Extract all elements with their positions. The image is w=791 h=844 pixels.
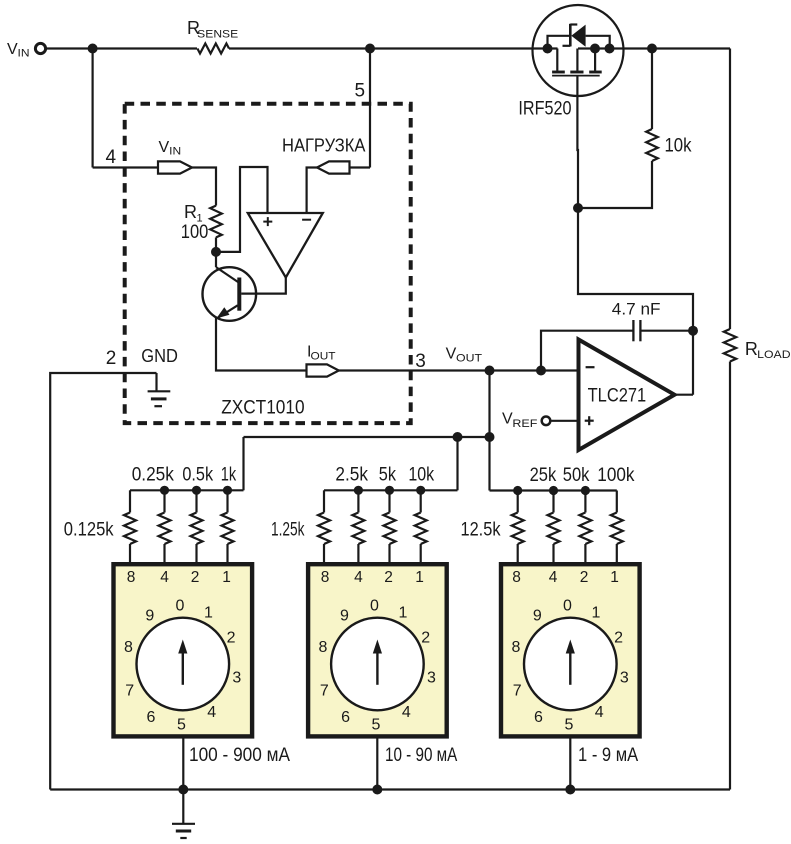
junction VOUT node [485, 366, 495, 376]
wire minus node to C1 [541, 331, 633, 371]
ground main symbol [172, 790, 195, 839]
Q2 body diode zener bar [563, 24, 578, 47]
wire 10k top [651, 49, 653, 130]
junction bus node x585.4 [581, 486, 590, 495]
label VIN flag [159, 139, 182, 158]
svg-text:1: 1 [610, 569, 619, 586]
S1 pin labels 8 4 2 1 [127, 569, 231, 586]
svg-text:9: 9 [340, 607, 349, 624]
resistor R1 value 100 [181, 222, 209, 243]
terminal VREF [542, 417, 551, 426]
wire VREF to plus input [552, 420, 579, 422]
svg-text:7: 7 [513, 682, 522, 699]
svg-text:4: 4 [354, 569, 363, 586]
junction Q2 drain [543, 44, 553, 54]
junction VIN node [88, 44, 98, 54]
ground pin2 symbol [148, 373, 171, 406]
wire right edge bottom [729, 362, 731, 790]
connector flag NAGRUZKA [317, 161, 350, 173]
connector flag IOUT [307, 364, 339, 376]
resistor R1c 0.5k [191, 490, 203, 562]
wire RSENSE to Q1 [229, 47, 533, 49]
svg-text:0.25k: 0.25k [132, 464, 175, 485]
wire C1 to output node [640, 330, 693, 332]
wire pin5 down [369, 49, 371, 168]
junction sw3 out [565, 785, 575, 795]
Q2 body diode triangle [571, 25, 585, 47]
svg-text:4: 4 [207, 704, 216, 721]
wire IOUT to VOUT [339, 369, 579, 371]
svg-text:5k: 5k [379, 464, 397, 485]
svg-text:1: 1 [415, 569, 424, 586]
svg-text:50k: 50k [563, 465, 590, 486]
terminal VIN [35, 43, 45, 53]
label R1 [184, 202, 203, 224]
svg-text:1k: 1k [221, 464, 237, 485]
capacitor C1 [633, 320, 640, 341]
svg-text:6: 6 [341, 709, 350, 726]
S2 dial arrow [373, 640, 382, 685]
svg-text:2: 2 [106, 348, 117, 369]
svg-text:1.25k: 1.25k [271, 520, 305, 541]
op-amp U1 minus sign [302, 219, 311, 221]
svg-text:V: V [159, 139, 170, 156]
junction cap output node [688, 326, 698, 336]
wire bottom rail [50, 788, 730, 790]
svg-text:9: 9 [533, 607, 542, 624]
wire pin5 to load flag [350, 166, 371, 168]
svg-text:10 - 90 мА: 10 - 90 мА [385, 745, 458, 766]
junction bus node x358.4 [354, 486, 363, 495]
wire op-amp minus input [307, 168, 317, 214]
wire Q2 gate down [576, 76, 579, 208]
svg-text:1: 1 [399, 605, 408, 622]
svg-text:V: V [7, 41, 18, 58]
svg-text:1: 1 [591, 605, 600, 622]
resistor R3c 100k [579, 491, 591, 563]
IC box ZXCT1010 dashed outline [125, 104, 411, 423]
junction sw2 out [372, 785, 382, 795]
svg-text:GND: GND [141, 346, 178, 366]
S3 dial arrow [566, 640, 575, 685]
svg-text:8: 8 [127, 569, 136, 586]
junction bus node x196.5 [192, 486, 201, 495]
Q2 channel bar 1 [552, 71, 565, 74]
label VIN input [7, 41, 30, 60]
svg-text:8: 8 [511, 639, 520, 656]
transistor Q2 IRF520 body [533, 5, 624, 96]
svg-text:1: 1 [222, 569, 231, 586]
svg-text:1: 1 [204, 605, 213, 622]
svg-text:IRF520: IRF520 [518, 99, 571, 120]
S3 dial [524, 618, 617, 711]
junction bus node x553.5 [549, 486, 558, 495]
junction 10k top [647, 44, 657, 54]
svg-text:V: V [446, 345, 457, 362]
rotary switch S2 body [308, 564, 447, 736]
svg-text:3: 3 [427, 670, 436, 687]
svg-text:25k: 25k [530, 465, 557, 486]
svg-text:7: 7 [320, 682, 329, 699]
svg-text:100: 100 [181, 222, 209, 243]
junction ladder node [485, 432, 495, 442]
svg-text:10k: 10k [408, 464, 434, 485]
Q2 source stub [576, 49, 578, 71]
junction ladder mid [453, 432, 463, 442]
junction bus node x517.7 [513, 486, 522, 495]
svg-text:4: 4 [549, 569, 558, 586]
label VOUT [446, 345, 483, 364]
S1 dial arrow [178, 640, 187, 685]
wire node to Q1 collector [215, 252, 217, 267]
junction gnd main [178, 785, 188, 795]
junction bus node x227.5 [223, 486, 232, 495]
svg-text:8: 8 [512, 569, 521, 586]
svg-text:8: 8 [321, 569, 330, 586]
resistor RSENSE [197, 44, 229, 54]
S1 dial digits 0-9 [124, 597, 241, 733]
svg-text:IN: IN [169, 146, 181, 158]
svg-text:4: 4 [160, 569, 169, 586]
wire S3 output [569, 739, 571, 790]
wire ladder horizontal [244, 436, 490, 438]
S3 dial digits 0-9 [511, 597, 628, 733]
svg-text:OUT: OUT [311, 351, 336, 363]
svg-text:0: 0 [370, 597, 379, 614]
svg-text:R: R [184, 202, 197, 222]
svg-text:8: 8 [124, 639, 133, 656]
svg-text:5: 5 [355, 81, 366, 102]
op-amp U2 TLC271 [579, 340, 675, 451]
wire pin2 gnd [50, 373, 156, 790]
svg-text:7: 7 [125, 682, 134, 699]
svg-text:2: 2 [191, 569, 200, 586]
junction pin5 node [365, 44, 375, 54]
svg-text:6: 6 [147, 709, 156, 726]
svg-text:2: 2 [580, 569, 589, 586]
svg-text:100 - 900 мА: 100 - 900 мА [189, 745, 290, 766]
resistor R1 [210, 206, 222, 238]
op-amp U1 plus sign [263, 217, 272, 226]
wire R1 to node [215, 237, 217, 252]
transistor Q1 [203, 267, 257, 321]
junction minus input node [536, 366, 546, 376]
Q2 drain stub [556, 49, 558, 71]
junction Q2 body diode [605, 44, 615, 54]
S2 dial [331, 618, 424, 711]
resistor R2b 2.5k [352, 490, 364, 562]
wire 10k bottom to gate node [578, 161, 652, 208]
svg-text:5: 5 [372, 717, 381, 734]
svg-text:R: R [745, 339, 758, 359]
Q2 body diode anode wire [548, 36, 571, 49]
svg-text:4.7 nF: 4.7 nF [612, 300, 661, 319]
svg-text:5: 5 [564, 717, 573, 734]
svg-text:V: V [502, 411, 513, 428]
svg-text:2: 2 [384, 569, 393, 586]
svg-text:SENSE: SENSE [197, 29, 238, 41]
rotary switch S3 body [501, 564, 640, 736]
wire VOUT down [488, 371, 490, 491]
wire to pin 4 [93, 166, 158, 168]
svg-text:2.5k: 2.5k [335, 464, 368, 485]
wire bus2 [324, 489, 458, 491]
svg-text:OUT: OUT [456, 353, 482, 365]
wire S1 output [182, 739, 184, 790]
svg-text:4: 4 [106, 147, 117, 168]
junction bus node x164.5 [160, 486, 169, 495]
svg-text:8: 8 [319, 639, 328, 656]
wire S2 output [376, 739, 378, 790]
svg-text:2: 2 [614, 630, 623, 647]
wire U2 output [675, 394, 694, 396]
svg-text:0: 0 [563, 597, 572, 614]
resistor R3b 50k [548, 491, 560, 563]
Q2 channel bar 2 [570, 71, 583, 74]
wire VIN flag to R1 [192, 168, 216, 206]
label RSENSE [187, 18, 238, 40]
Q2 substrate stub [594, 49, 596, 71]
wire op-amp U1 output to Q1 base [241, 278, 286, 294]
junction bus node x420.7 [416, 486, 425, 495]
connector flag VIN [158, 161, 192, 173]
svg-text:1 - 9 мА: 1 - 9 мА [578, 745, 638, 766]
rotary switch S1 body [114, 564, 253, 736]
op-amp U1 [248, 213, 323, 278]
svg-text:100k: 100k [597, 465, 635, 486]
resistor RLOAD [724, 329, 736, 362]
wire node to op-amp plus input [216, 167, 268, 252]
svg-text:3: 3 [415, 351, 426, 372]
svg-text:9: 9 [145, 607, 154, 624]
svg-text:TLC271: TLC271 [588, 386, 647, 407]
svg-text:ZXCT1010: ZXCT1010 [221, 397, 304, 418]
svg-text:4: 4 [402, 704, 411, 721]
svg-text:6: 6 [534, 709, 543, 726]
svg-text:2: 2 [227, 630, 236, 647]
Q2 drain rail left [533, 47, 558, 49]
wire Q1 emitter down [216, 318, 307, 371]
wire bus2 riser [456, 437, 458, 490]
resistor R3a 25k [512, 491, 524, 563]
junction R1 bottom node [211, 247, 221, 257]
S2 dial digits 0-9 [319, 597, 436, 733]
svg-text:LOAD: LOAD [757, 349, 790, 361]
wire bus1 riser [242, 437, 244, 490]
Q2 rail right [578, 47, 623, 49]
label IOUT [307, 344, 336, 363]
svg-text:0.5k: 0.5k [182, 464, 213, 485]
wire right edge top [729, 49, 731, 330]
junction bus node x389.5 [385, 486, 394, 495]
svg-text:3: 3 [620, 670, 629, 687]
resistor R2a [318, 490, 330, 562]
wire VIN branch down [91, 49, 93, 168]
svg-text:10k: 10k [665, 136, 692, 157]
Q2 body diode cathode wire [586, 36, 610, 49]
resistor R3d [611, 491, 623, 563]
wire gate node to feedback top [578, 208, 693, 395]
Q2 gate plate [552, 75, 600, 77]
svg-text:0.125k: 0.125k [64, 520, 114, 541]
svg-text:2: 2 [421, 630, 430, 647]
resistor 10k [646, 129, 658, 161]
wire VIN to RSENSE [46, 47, 197, 49]
S2 pin labels 8 4 2 1 [321, 569, 424, 586]
label RLOAD [745, 339, 791, 361]
wire bus3 [490, 489, 617, 491]
wire Q2 to 10k and right edge [623, 47, 730, 49]
resistor R1b 0.25k [159, 490, 171, 562]
op-amp U2 plus sign [585, 416, 594, 425]
S3 pin labels 8 4 2 1 [512, 569, 619, 586]
svg-text:3: 3 [232, 670, 241, 687]
label VREF [502, 411, 538, 430]
Q2 channel bar 3 [589, 71, 602, 74]
op-amp U2 minus sign [586, 366, 595, 368]
svg-text:НАГРУЗКА: НАГРУЗКА [282, 136, 365, 156]
junction Q2 source [590, 44, 600, 54]
svg-text:5: 5 [177, 717, 186, 734]
svg-text:12.5k: 12.5k [461, 520, 501, 541]
svg-text:4: 4 [595, 704, 604, 721]
svg-text:0: 0 [175, 597, 184, 614]
resistor R2d 10k [415, 490, 427, 562]
wire bus1 [130, 489, 244, 491]
svg-text:IN: IN [18, 48, 30, 60]
resistor R2c 5k [384, 490, 396, 562]
resistor R1a [124, 490, 136, 562]
svg-text:REF: REF [512, 418, 537, 430]
resistor R1d 1k [222, 490, 234, 562]
S1 dial [137, 618, 230, 711]
junction gate node [573, 203, 583, 213]
